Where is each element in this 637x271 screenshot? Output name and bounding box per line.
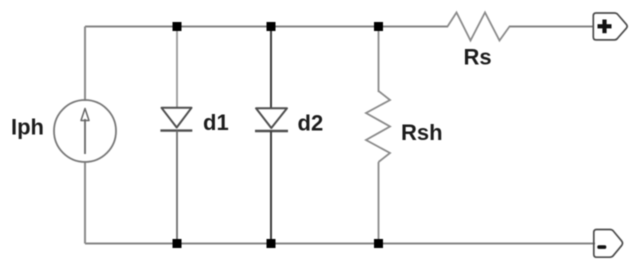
wire Rsh branch upper	[378, 27, 380, 93]
node junction bottom d2	[267, 239, 276, 248]
svg-text:d1: d1	[203, 110, 229, 135]
node junction top d1	[173, 22, 182, 31]
wire d1 branch upper	[176, 27, 178, 109]
resistor Rs (horizontal zigzag)	[448, 13, 510, 41]
wire left branch lower (Iph bottom to rail)	[84, 161, 86, 244]
node junction top Rsh	[374, 22, 383, 31]
diode d1	[160, 108, 192, 131]
terminal - (negative output port)	[594, 230, 623, 258]
wire top rail (node between Iph/d1/d2/Rsh and Rs)	[85, 26, 448, 28]
wire bottom rail (negative node)	[85, 243, 595, 245]
node junction bottom Rsh	[374, 239, 383, 248]
wire from Rs to + terminal	[509, 26, 594, 28]
wire d2 branch upper	[270, 27, 272, 109]
node junction top d2	[267, 22, 276, 31]
svg-text:Rsh: Rsh	[401, 120, 443, 145]
node junction bottom d1	[173, 239, 182, 248]
wire left branch upper (Iph top to rail)	[84, 27, 86, 102]
terminal + (positive output port)	[593, 13, 627, 40]
svg-text:d2: d2	[298, 110, 324, 135]
current source Iph (circle with up arrow)	[54, 100, 116, 162]
resistor Rsh (vertical zigzag)	[366, 91, 390, 162]
svg-text:Rs: Rs	[464, 45, 492, 70]
wire d2 branch lower	[270, 131, 272, 244]
diode d2	[255, 108, 288, 131]
wire d1 branch lower	[176, 131, 178, 244]
wire Rsh branch lower	[378, 162, 380, 244]
svg-text:Iph: Iph	[11, 115, 44, 140]
